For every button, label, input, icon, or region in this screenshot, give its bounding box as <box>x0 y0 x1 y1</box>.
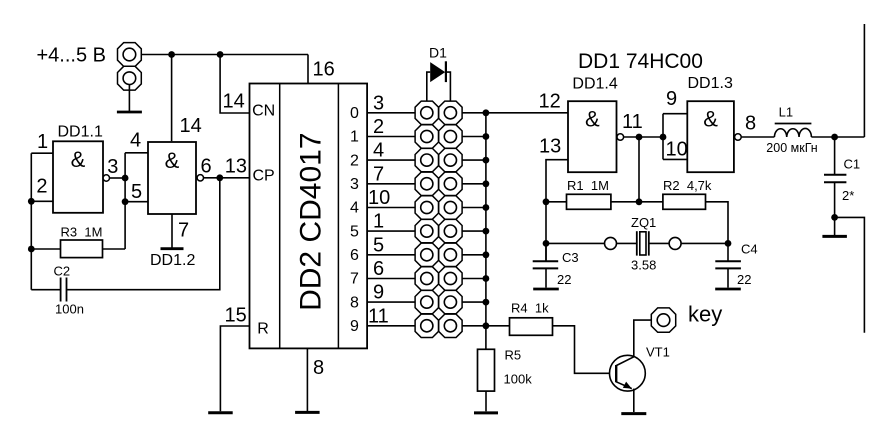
ground <box>161 247 184 250</box>
svg-text:200 мкГн: 200 мкГн <box>766 141 817 155</box>
junction <box>543 240 550 247</box>
svg-text:ZQ1: ZQ1 <box>631 215 656 230</box>
inductor L1 <box>774 128 811 137</box>
ground <box>621 412 646 415</box>
wire <box>834 217 836 235</box>
junction <box>483 322 490 329</box>
wire pin 5 <box>125 201 148 203</box>
junction <box>168 51 175 58</box>
svg-text:8: 8 <box>745 113 756 135</box>
wire pin 12 (row0 to DD1.4) <box>486 112 568 114</box>
wire row 8 to bus <box>462 301 486 303</box>
wire <box>128 85 130 111</box>
wire <box>31 248 60 250</box>
connector XP pin row 1 left socket <box>415 125 438 148</box>
transistor VT1 emitter <box>616 382 632 389</box>
ground <box>715 288 741 291</box>
svg-text:15: 15 <box>225 305 247 327</box>
wire output 2 <box>367 159 415 161</box>
connector X1 pin 1 (+V socket) <box>118 43 142 67</box>
junction <box>483 133 490 140</box>
op-gate DD1.1 body <box>53 141 103 213</box>
resistor R1 <box>567 194 611 209</box>
ground <box>295 411 320 414</box>
wire output 1 <box>367 136 415 138</box>
svg-text:CP: CP <box>253 168 275 185</box>
svg-text:+4...5 В: +4...5 В <box>37 45 107 67</box>
junction <box>831 134 838 141</box>
op-gate DD1.4 body <box>568 101 617 172</box>
svg-text:2: 2 <box>350 152 359 169</box>
wire pin 9 <box>663 113 687 115</box>
resistor R2 <box>663 194 706 209</box>
wire <box>545 268 547 287</box>
resistor R4 <box>510 318 553 336</box>
svg-text:100n: 100n <box>55 302 84 317</box>
wire <box>681 242 728 244</box>
junction <box>636 134 643 141</box>
wire pin 3 <box>110 177 126 179</box>
wire pin 13 <box>546 160 568 261</box>
svg-text:&: & <box>71 147 86 172</box>
junction <box>483 299 490 306</box>
wire collector to key <box>634 320 651 357</box>
wire pin 8 <box>306 348 308 411</box>
svg-text:CN: CN <box>252 103 275 120</box>
transistor VT1 base bar <box>615 365 617 382</box>
connector XP pin row 7 left socket <box>415 267 438 290</box>
svg-text:1: 1 <box>373 211 384 233</box>
wire R4 to base <box>553 326 617 374</box>
wire pin 2 <box>31 200 53 202</box>
wire DD1.2 pin 14 riser <box>171 55 173 142</box>
connector XP pin row 0 left socket <box>415 101 438 124</box>
svg-text:100k: 100k <box>504 372 533 387</box>
wire <box>834 182 836 217</box>
wire pin 8 out <box>741 136 774 138</box>
svg-text:7: 7 <box>350 271 359 288</box>
svg-text:&: & <box>703 107 718 132</box>
svg-text:R2 4,7k: R2 4,7k <box>663 178 712 193</box>
svg-text:4: 4 <box>130 130 141 152</box>
wire <box>727 268 729 287</box>
wire row 6 to bus <box>462 254 486 256</box>
svg-text:D1: D1 <box>429 45 447 61</box>
inverter bubble DD1.4 <box>617 134 624 141</box>
svg-text:12: 12 <box>539 90 561 112</box>
resistor R5 <box>478 349 495 391</box>
wire emitter <box>633 389 635 412</box>
wire output 9 <box>367 325 415 327</box>
connector XP pin row 4 right socket <box>439 196 462 219</box>
wire row 3 to bus <box>462 183 486 185</box>
svg-text:11: 11 <box>368 305 389 327</box>
wire output 8 <box>367 301 415 303</box>
wire output 5 <box>367 230 415 232</box>
junction <box>483 204 490 211</box>
wire C2 to CP node <box>67 178 220 290</box>
wire input bracket 2 <box>124 153 126 249</box>
wire pin 6 to CP <box>204 177 250 179</box>
svg-text:1: 1 <box>37 131 48 153</box>
junction <box>636 198 643 205</box>
svg-text:9: 9 <box>373 282 384 304</box>
svg-text:14: 14 <box>223 91 245 113</box>
connector XP pin row 0 right socket <box>439 101 462 124</box>
svg-text:5: 5 <box>131 181 142 203</box>
capacitor C1 <box>824 174 846 176</box>
svg-text:VT1: VT1 <box>646 345 670 360</box>
connector XP pin row 6 right socket <box>439 243 462 266</box>
crystal ZQ1 <box>636 231 638 255</box>
svg-text:DD1 74HC00: DD1 74HC00 <box>578 50 703 73</box>
IC DD2 internal line left <box>279 84 281 349</box>
wire pin14 to CN <box>220 55 249 114</box>
wire row 7 to bus <box>462 278 486 280</box>
svg-text:L1: L1 <box>779 105 793 120</box>
wire pin 11 <box>624 136 663 138</box>
capacitor C4 <box>715 260 741 262</box>
inductor L1 core <box>775 123 812 125</box>
wire pin 10 <box>663 158 687 160</box>
crystal socket circle left <box>605 237 617 249</box>
wire <box>649 242 669 244</box>
junction <box>483 251 490 258</box>
svg-text:16: 16 <box>313 59 335 81</box>
wire <box>486 325 510 327</box>
svg-text:6: 6 <box>201 156 212 178</box>
wire <box>31 289 60 291</box>
wire output 7 <box>367 278 415 280</box>
ground <box>117 111 142 114</box>
junction <box>122 175 129 182</box>
svg-text:3: 3 <box>373 92 384 114</box>
svg-text:22: 22 <box>737 272 751 287</box>
op-gate DD1.3 body <box>687 101 734 172</box>
svg-text:3.58: 3.58 <box>631 258 656 273</box>
svg-text:DD1.1: DD1.1 <box>58 124 103 141</box>
inverter bubble DD1.2 <box>197 175 203 181</box>
wire output 4 <box>367 207 415 209</box>
svg-text:3: 3 <box>107 156 118 178</box>
svg-text:DD1.2: DD1.2 <box>150 252 195 269</box>
junction <box>483 275 490 282</box>
connector key socket <box>651 308 675 332</box>
junction <box>483 109 490 116</box>
wire pin16 drop <box>307 55 309 84</box>
svg-text:14: 14 <box>180 115 202 137</box>
connector XP pin row 8 right socket <box>439 290 462 313</box>
connector XP pin row 2 left socket <box>415 148 438 171</box>
svg-text:6: 6 <box>350 247 359 264</box>
svg-text:22: 22 <box>557 272 571 287</box>
svg-text:3: 3 <box>350 176 359 193</box>
wire pin 4 <box>125 152 148 154</box>
inverter bubble DD1.1 <box>103 175 109 181</box>
svg-text:10: 10 <box>368 187 390 209</box>
transistor VT1 body <box>610 355 646 391</box>
wire row 1 to bus <box>462 136 486 138</box>
svg-text:2: 2 <box>373 116 384 138</box>
wire pin 1 <box>31 152 53 154</box>
connector XP pin row 3 right socket <box>439 172 462 195</box>
wire antenna bottom <box>835 217 865 332</box>
inverter bubble DD1.3 <box>735 134 742 141</box>
svg-text:5: 5 <box>350 223 359 240</box>
svg-text:5: 5 <box>373 234 384 256</box>
resistor R3 <box>61 240 103 258</box>
wire DD1.3 input bracket <box>662 114 664 160</box>
wire row 5 to bus <box>462 230 486 232</box>
svg-text:8: 8 <box>350 294 359 311</box>
svg-text:11: 11 <box>622 111 643 133</box>
IC DD2 internal line right <box>337 84 339 349</box>
connector XP pin row 1 right socket <box>439 125 462 148</box>
junction <box>122 198 129 205</box>
wire <box>811 136 864 138</box>
svg-text:&: & <box>585 107 600 132</box>
wire <box>485 391 487 411</box>
connector XP pin row 6 left socket <box>415 243 438 266</box>
svg-text:4: 4 <box>373 140 384 162</box>
svg-text:7: 7 <box>373 163 384 185</box>
connector XP pin row 8 left socket <box>415 290 438 313</box>
svg-text:10: 10 <box>666 139 688 161</box>
svg-text:R4 1k: R4 1k <box>511 301 549 316</box>
wire pin11 to R1/R2 <box>638 137 640 202</box>
connector XP pin row 7 right socket <box>439 267 462 290</box>
wire row 4 to bus <box>462 207 486 209</box>
wire <box>834 137 836 174</box>
connector X1 pin 2 (GND socket) <box>118 66 142 90</box>
svg-text:13: 13 <box>225 156 247 178</box>
svg-text:DD2 CD4017: DD2 CD4017 <box>295 132 328 310</box>
svg-text:13: 13 <box>539 136 561 158</box>
IC DD2 body <box>250 84 368 349</box>
op-gate DD1.2 body <box>148 142 196 214</box>
wire <box>545 243 547 261</box>
connector XP pin row 9 right socket <box>439 314 462 337</box>
wire row 9 to bus <box>462 325 486 327</box>
crystal socket circle right <box>669 237 681 249</box>
junction <box>483 157 490 164</box>
junction <box>831 214 838 221</box>
connector XP pin row 5 right socket <box>439 219 462 242</box>
svg-text:7: 7 <box>178 220 189 242</box>
wire output 0 <box>367 112 415 114</box>
wire D1 anode lead <box>427 72 430 101</box>
wire <box>611 201 639 203</box>
wire pin 7 <box>171 214 173 248</box>
capacitor C2 <box>60 278 62 302</box>
wire antenna top <box>863 24 865 137</box>
junction <box>543 198 550 205</box>
svg-text:C3: C3 <box>562 250 579 265</box>
svg-text:DD1.4: DD1.4 <box>572 76 617 93</box>
connector XP pin row 9 left socket <box>415 314 438 337</box>
svg-text:9: 9 <box>350 318 359 335</box>
wire row 2 to bus <box>462 159 486 161</box>
ground <box>208 411 233 414</box>
wire D1 cathode lead <box>446 72 451 101</box>
wire +V rail <box>141 54 308 56</box>
svg-text:9: 9 <box>666 88 677 110</box>
capacitor C3 <box>533 260 559 262</box>
wire <box>727 243 729 261</box>
junction <box>28 198 35 205</box>
svg-text:DD1.3: DD1.3 <box>688 75 733 92</box>
wire <box>546 242 605 244</box>
svg-text:R5: R5 <box>505 348 522 363</box>
transistor VT1 collector <box>616 357 634 366</box>
svg-text:key: key <box>688 302 722 327</box>
junction <box>483 180 490 187</box>
wire output 3 <box>367 183 415 185</box>
wire output 6 <box>367 254 415 256</box>
junction <box>28 246 35 253</box>
junction <box>660 134 667 141</box>
wire <box>617 242 637 244</box>
svg-text:R1 1M: R1 1M <box>567 178 609 193</box>
wire <box>546 201 567 203</box>
svg-text:8: 8 <box>313 357 324 379</box>
junction <box>483 228 490 235</box>
connector XP pin row 5 left socket <box>415 219 438 242</box>
svg-text:&: & <box>165 148 180 173</box>
wire input bracket <box>30 153 32 290</box>
wire R2 to crystal node <box>706 202 729 244</box>
wire <box>639 201 663 203</box>
connector XP pin row 2 right socket <box>439 148 462 171</box>
wire output bus <box>485 113 487 349</box>
connector XP pin row 3 left socket <box>415 172 438 195</box>
svg-text:2: 2 <box>36 176 47 198</box>
wire pin 15 to ground <box>220 326 249 411</box>
ground <box>474 411 498 414</box>
ground <box>822 235 847 238</box>
svg-text:R: R <box>257 321 269 338</box>
connector XP pin row 4 left socket <box>415 196 438 219</box>
svg-text:4: 4 <box>350 200 359 217</box>
junction <box>216 174 223 181</box>
wire <box>103 248 126 250</box>
svg-text:1: 1 <box>350 129 359 146</box>
svg-text:0: 0 <box>350 105 359 122</box>
svg-text:C2: C2 <box>54 264 71 279</box>
diode D1 <box>430 62 445 82</box>
svg-text:R3 1M: R3 1M <box>61 225 103 240</box>
svg-text:C1: C1 <box>844 157 861 172</box>
svg-text:C4: C4 <box>741 242 758 257</box>
svg-text:2*: 2* <box>842 188 854 203</box>
junction <box>725 240 732 247</box>
wire row 0 to bus <box>462 112 486 114</box>
ground <box>533 288 559 291</box>
svg-text:6: 6 <box>373 258 384 280</box>
junction <box>217 51 224 58</box>
